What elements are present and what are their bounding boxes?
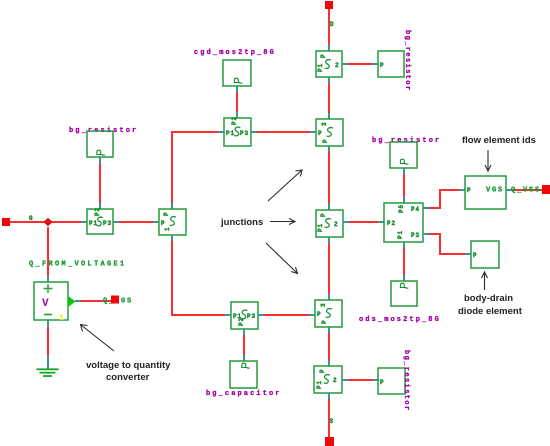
svg-text:1: 1 xyxy=(59,314,64,323)
junction J2b xyxy=(316,119,343,146)
svg-text:P: P xyxy=(321,319,328,324)
svg-text:D: D xyxy=(330,21,335,28)
svg-text:P1: P1 xyxy=(226,130,235,137)
svg-text:P: P xyxy=(319,368,326,373)
resistor R1 bg_resistor (top left) xyxy=(87,131,113,157)
svg-text:Q_FROM_VOLTAGE1: Q_FROM_VOLTAGE1 xyxy=(29,261,127,269)
label bg_resistor (vertical, bottom right) xyxy=(402,350,410,412)
junction dot (diamond) xyxy=(44,218,53,226)
wire P1P3 down to capacitor Cbg xyxy=(243,329,245,361)
svg-text:cgd_mos2tp_8G: cgd_mos2tp_8G xyxy=(194,49,276,57)
resistor R3 bg_resistor (bottom right) xyxy=(378,368,405,394)
wire P1P3 to J4 xyxy=(258,314,315,316)
wire J4 to junction J5 (vertical bus) xyxy=(328,327,330,366)
svg-text:P3: P3 xyxy=(240,130,249,137)
terminal S xyxy=(325,437,334,446)
wire V1 to ground xyxy=(47,320,49,369)
annotation arrow to diode xyxy=(482,272,488,290)
wire JG to J2 xyxy=(113,221,159,223)
svg-text:P4: P4 xyxy=(411,206,420,213)
svg-text:P: P xyxy=(320,212,327,217)
junction J2 xyxy=(159,209,186,235)
resistor R2 bg_resistor (top right) xyxy=(378,51,404,77)
label bg_capacitor xyxy=(206,390,282,398)
terminal D xyxy=(325,1,333,9)
annotation: body-drain diode element xyxy=(458,293,523,317)
svg-text:P3: P3 xyxy=(103,220,112,227)
capacitor Cds xyxy=(391,281,417,306)
label cgd_mos2tp_8G xyxy=(194,49,276,57)
terminal Q_VGS (left) xyxy=(111,296,119,304)
wire J5 to resistor R3 xyxy=(342,379,379,381)
annotation: voltage to quantity converter xyxy=(86,360,171,383)
svg-text:P1: P1 xyxy=(397,230,404,239)
diode D1 body-drain xyxy=(471,241,499,268)
junction JG xyxy=(87,207,113,234)
svg-text:P: P xyxy=(380,62,385,69)
terminal Q_VGS (right) xyxy=(542,185,550,194)
wire Jtm to J2b xyxy=(251,131,316,133)
svg-text:P: P xyxy=(473,252,478,259)
wire ODS P1 down to capacitor Cds xyxy=(403,242,405,281)
ground xyxy=(37,369,59,376)
voltage source V1 Q_FROM_VOLTAGE1 xyxy=(34,282,76,323)
svg-text:P1: P1 xyxy=(317,63,324,72)
svg-text:P2: P2 xyxy=(387,220,396,227)
junction JD xyxy=(316,51,342,77)
junction P1P3 (bottom left) xyxy=(231,302,258,329)
svg-text:P3: P3 xyxy=(247,313,256,320)
wire J2 down to junction P1P3 xyxy=(172,235,231,315)
svg-text:bg_resistor: bg_resistor xyxy=(372,137,441,145)
svg-text:Q_VGS: Q_VGS xyxy=(511,187,541,195)
svg-text:flow element ids: flow element ids xyxy=(462,135,536,146)
wire ODS P3 to diode box xyxy=(423,234,471,254)
label Q_FROM_VOLTAGE1 xyxy=(29,261,127,269)
svg-text:S: S xyxy=(330,418,335,425)
svg-text:2: 2 xyxy=(335,62,340,69)
svg-text:3: 3 xyxy=(320,302,327,307)
wire J2b to junction J3 (vertical bus) xyxy=(328,146,330,210)
wire VGS to terminal Q_VGS xyxy=(506,189,542,191)
svg-text:P: P xyxy=(467,187,472,194)
node Q_VGS label (right) xyxy=(511,187,541,195)
wire J5 to terminal S xyxy=(328,393,330,437)
capacitor Cgd cgd_mos2tp_8G xyxy=(223,60,251,86)
terminal G xyxy=(2,218,10,226)
svg-text:body-drain: body-drain xyxy=(464,293,513,304)
annotation: flow element ids xyxy=(462,135,536,146)
svg-text:G: G xyxy=(29,215,34,222)
svg-text:bg_resistor: bg_resistor xyxy=(403,30,411,92)
svg-text:P: P xyxy=(318,130,323,137)
capacitor Cbg bg_capacitor xyxy=(230,361,257,388)
resistor R4 bg_resistor (middle right) xyxy=(390,142,417,168)
wire R4 to ODS xyxy=(403,168,405,203)
junction J4 xyxy=(315,300,342,327)
wire J3 to ODS xyxy=(343,221,384,223)
wire JD to junction J2b xyxy=(328,77,330,119)
svg-text:bg_capacitor: bg_capacitor xyxy=(206,390,282,398)
svg-text:1: 1 xyxy=(164,226,171,231)
annotation arrow to VGS box xyxy=(485,150,491,171)
svg-text:bg_resistor: bg_resistor xyxy=(402,350,410,412)
svg-text:P3: P3 xyxy=(411,232,420,239)
annotation: junctions text xyxy=(220,217,263,228)
label bg_resistor (top left) xyxy=(69,127,138,135)
wire ODS P4 to VGS box xyxy=(423,190,465,208)
svg-text:ods_mos2tp_8G: ods_mos2tp_8G xyxy=(359,316,441,324)
svg-text:voltage to quantity: voltage to quantity xyxy=(86,360,171,371)
svg-text:V: V xyxy=(42,298,49,310)
node G label xyxy=(29,215,34,222)
svg-text:P: P xyxy=(161,220,166,227)
svg-text:P: P xyxy=(322,138,329,143)
svg-text:VGS: VGS xyxy=(486,187,504,195)
svg-text:2: 2 xyxy=(334,221,339,228)
wire D to junction JD xyxy=(328,9,330,51)
wire R1 to junction JG xyxy=(99,157,101,209)
wire V1 out to Q_VGS xyxy=(75,300,112,302)
annotation arrow to J2b xyxy=(268,170,302,201)
svg-text:P: P xyxy=(317,311,322,318)
junction Jtm (top middle) xyxy=(224,116,251,146)
node D label xyxy=(330,21,335,28)
svg-text:junctions: junctions xyxy=(220,217,263,228)
svg-text:P: P xyxy=(320,53,327,58)
label ods_mos2tp_8G xyxy=(359,316,441,324)
svg-text:P5: P5 xyxy=(398,204,405,213)
svg-text:3: 3 xyxy=(321,121,328,126)
label bg_resistor (middle right) xyxy=(372,137,441,145)
junction J3 xyxy=(316,210,343,237)
flow element VGS xyxy=(465,176,506,209)
svg-text:P: P xyxy=(163,211,170,216)
node S label xyxy=(330,418,335,425)
svg-text:diode element: diode element xyxy=(458,306,523,317)
svg-text:P2: P2 xyxy=(231,116,238,125)
svg-text:converter: converter xyxy=(106,372,150,383)
annotation arrow to J4 xyxy=(266,243,298,274)
op element ODS ods_mos2tp_8G (5-pin) xyxy=(384,203,423,242)
wire diamond to V1 xyxy=(47,227,49,282)
wire Jtm left down to J2 xyxy=(172,132,224,209)
junction J5 xyxy=(314,366,342,393)
wire JD to resistor R2 xyxy=(342,63,378,65)
wire Cgd to junction Jtm xyxy=(236,86,238,118)
svg-text:P1: P1 xyxy=(316,380,323,389)
svg-text:P2: P2 xyxy=(94,207,101,216)
wire G to junction JG xyxy=(10,221,87,223)
annotation arrow to V1 xyxy=(81,325,115,352)
annotation arrow to J3 xyxy=(270,219,295,225)
label bg_resistor (vertical, top right) xyxy=(403,30,411,92)
node Q_VGS label (left) xyxy=(103,298,133,306)
svg-text:P: P xyxy=(380,379,385,386)
wire J3 to junction J4 (vertical bus) xyxy=(328,237,330,300)
svg-text:2: 2 xyxy=(333,377,338,384)
svg-text:P1: P1 xyxy=(317,223,324,232)
